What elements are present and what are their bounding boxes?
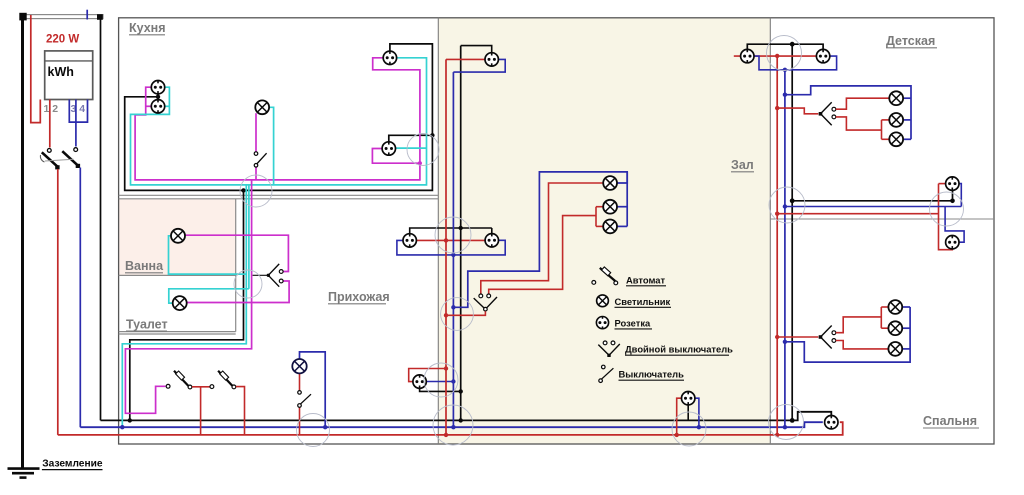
- wire magenta K2 left pin stub: [146, 105, 152, 107]
- wire red zal switch feed: [446, 311, 485, 315]
- node B (right bus square): [97, 14, 103, 20]
- wire red zal lamp2-3 circuit: [596, 206, 603, 208]
- double switch childrens: [819, 102, 836, 125]
- wire cyan K2 right pin stub: [165, 105, 170, 107]
- wire blue bottom bus: [80, 422, 823, 427]
- node blue hall lamp: [323, 425, 327, 429]
- wire blue hall lamp return: [300, 352, 326, 427]
- breaker Б2: [210, 371, 236, 389]
- wire red bedroom switch feed: [777, 336, 818, 338]
- svg-text:Спальня: Спальня: [923, 414, 977, 428]
- svg-text:Двойной выключатель: Двойной выключатель: [625, 344, 733, 355]
- svg-text:1 2: 1 2: [44, 103, 59, 115]
- svg-text:Детская: Детская: [886, 34, 935, 48]
- socket K2: [151, 100, 164, 113]
- wire red hall lamp drop: [299, 373, 301, 390]
- bath right wall: [235, 199, 237, 332]
- wire blue P1 Z2: [397, 240, 454, 255]
- wire blue right riser: [784, 70, 786, 427]
- junction box childrens top: [767, 36, 802, 71]
- wire cyan riser A: [122, 185, 246, 427]
- svg-text:Прихожая: Прихожая: [328, 290, 390, 304]
- wire blue childrens lamps neutral: [785, 86, 911, 139]
- junction box kitchen riser: [240, 175, 272, 207]
- junction box right wall middle: [769, 187, 805, 223]
- floor plan outer border: [119, 18, 994, 444]
- lamp zal 2: [603, 200, 617, 214]
- node black riser tap kitchen: [241, 188, 245, 192]
- socket hallway P2: [413, 375, 426, 388]
- lamp childrens 3: [889, 132, 903, 146]
- wire blue Z1: [453, 59, 505, 72]
- legend lamp symbol: [597, 295, 609, 307]
- svg-text:Зал: Зал: [731, 158, 754, 172]
- wire black P2: [420, 388, 462, 391]
- meter kWh box: [45, 51, 93, 100]
- socket M1: [946, 177, 959, 190]
- zал living room cream background: [438, 18, 770, 444]
- breaker Б1: [166, 371, 192, 389]
- node dots on risers: [444, 238, 448, 242]
- svg-text:3 4: 3 4: [71, 103, 86, 115]
- wire red bedroom lamp 3: [836, 341, 889, 349]
- kitchen bottom double wall: [119, 194, 439, 196]
- wire magenta bath lamp feed: [185, 235, 288, 271]
- junction box hall socket bottom: [424, 363, 458, 397]
- svg-text:Розетка: Розетка: [615, 317, 652, 328]
- wire cyan K4 right pin stub: [395, 147, 426, 149]
- wire black Z3: [687, 405, 689, 420]
- wire blue riser zal: [452, 72, 454, 427]
- lamp toilet: [173, 296, 187, 310]
- wire black riser: [130, 190, 244, 420]
- ground wire: [21, 17, 24, 469]
- node magenta K4: [418, 161, 422, 165]
- wire red childrens lamp1: [836, 98, 890, 109]
- socket hallway P1: [403, 234, 416, 247]
- wire red breaker1 out: [192, 386, 210, 388]
- wire cyan toilet lamp return: [169, 289, 249, 303]
- svg-text:Выключатель: Выключатель: [619, 369, 685, 380]
- socket D2: [816, 49, 829, 62]
- lamp bath: [171, 229, 185, 243]
- legend switch symbol: [599, 365, 614, 382]
- socket M2: [946, 236, 959, 249]
- wire red Z3: [677, 398, 682, 435]
- wire black bottom bus: [101, 412, 832, 421]
- toilet bottom double wall: [119, 331, 236, 333]
- wire red phase drop from bus: [31, 15, 41, 123]
- svg-text:kWh: kWh: [48, 65, 74, 79]
- socket D1: [741, 49, 754, 62]
- wire magenta riser: [125, 180, 251, 413]
- wire red top sockets link: [734, 55, 817, 57]
- bath pink background: [119, 199, 236, 276]
- node supply bus: [23, 15, 103, 19]
- bath bottom wall: [119, 274, 236, 276]
- lamp hallway: [292, 359, 306, 373]
- wire red right riser: [776, 56, 778, 435]
- double switch bedroom: [819, 326, 836, 349]
- wire red from switch down to red bottom bus: [57, 169, 59, 435]
- junction box zal switch: [441, 298, 474, 331]
- wire black from bus node B down to bottom black bus: [100, 17, 102, 420]
- node black riser to bus: [128, 418, 132, 422]
- lamp zal 1: [603, 176, 617, 190]
- lamp kitchen: [255, 100, 269, 114]
- wire blue from switch down to blue bottom bus: [79, 168, 81, 428]
- svg-text:220 W: 220 W: [46, 34, 79, 46]
- switch hallway lamp: [298, 391, 311, 408]
- svg-text:Заземление: Заземление: [42, 459, 103, 470]
- wire red riser zal: [445, 59, 447, 435]
- wire magenta socket K4: [372, 149, 420, 164]
- junction box zal bottom socket: [672, 412, 706, 446]
- main double-pole switch: [40, 148, 80, 170]
- socket Z1: [485, 53, 498, 66]
- legend double switch symbol: [598, 341, 620, 357]
- wire red zal lamp1 circuit: [481, 183, 603, 294]
- lamp bedroom 1: [888, 300, 902, 314]
- socket K3: [383, 51, 396, 64]
- node cyan to blue bus: [120, 425, 124, 429]
- wire red bottom bus: [58, 422, 843, 435]
- junction box zal sockets row: [435, 217, 471, 253]
- legend breaker symbol: [592, 267, 618, 285]
- lamp bedroom 2: [888, 321, 902, 335]
- wire red childrens lamps 2-3: [836, 117, 882, 130]
- socket K1: [151, 81, 164, 94]
- wire cyan riser B: [248, 185, 250, 289]
- wall kitchen/hall vs living room: [437, 18, 439, 444]
- junction box bath switch: [234, 270, 262, 298]
- wire red to sockets M1 M2: [777, 213, 938, 215]
- node dots right risers: [775, 54, 779, 58]
- socket Z2: [485, 234, 498, 247]
- wire cyan kitchen lamp return: [269, 107, 274, 185]
- wire magenta kitchen left sockets: [135, 58, 420, 180]
- svg-text:Светильник: Светильник: [615, 296, 671, 307]
- double switch bath/toilet: [253, 264, 284, 287]
- wire cyan kitchen sockets loop: [131, 58, 427, 185]
- wire blue terminal 4 down to switch: [75, 100, 77, 147]
- wire red childrens switch feed: [777, 108, 818, 114]
- wire blue Z3: [695, 398, 699, 427]
- legend socket symbol: [596, 316, 608, 329]
- lamp bedroom 3: [888, 342, 902, 356]
- junction box bedroom bottom: [769, 405, 804, 440]
- svg-text:Туалет: Туалет: [126, 318, 168, 332]
- wire blue terminal 3 U loop: [69, 100, 87, 123]
- switch kitchen lamp: [254, 152, 266, 167]
- ground: [8, 469, 40, 478]
- node black K4 tap: [430, 133, 434, 137]
- wire black right riser: [791, 44, 793, 420]
- wire red bedroom lamps 1-2: [836, 317, 882, 333]
- svg-text:Автомат: Автомат: [626, 274, 666, 285]
- junction box hall lamp: [297, 414, 330, 447]
- wire magenta toilet lamp feed: [187, 281, 289, 303]
- wire red terminal 2 down to switch: [49, 100, 51, 148]
- junction box zal bottom left: [433, 405, 473, 445]
- node kitchen sockets link: [156, 95, 160, 99]
- wire red Z1: [446, 58, 485, 60]
- lamp childrens 2: [889, 113, 903, 127]
- socket Z3: [682, 392, 695, 405]
- wire blue P2: [426, 381, 453, 383]
- wire red P1 to Z2: [416, 239, 485, 241]
- wire blue top sockets link: [754, 56, 836, 70]
- wire blue stub at bus: [86, 10, 88, 20]
- wire blue bedroom lamps neutral: [902, 306, 910, 308]
- wire blue zal lamps neutral: [453, 172, 627, 307]
- wire black kitchen loop: [125, 44, 433, 191]
- junction box kitchen right: [407, 134, 439, 166]
- lamp zal 3: [603, 220, 617, 234]
- wire magenta kitchen lamp drop to switch: [255, 113, 257, 151]
- wire blue to sockets M1 M2: [785, 206, 961, 208]
- junction box middle sockets: [930, 192, 964, 226]
- wire black link between sockets K1 K2: [157, 94, 159, 101]
- wire cyan bath lamp return: [169, 236, 247, 274]
- node A (left bus square): [19, 13, 26, 21]
- socket K4: [382, 142, 395, 155]
- wall childrens vs bedroom: [770, 218, 994, 220]
- wire black tap socket K4: [389, 135, 433, 142]
- wire black to socket M1: [792, 190, 952, 200]
- svg-text:Ванна: Ванна: [125, 259, 164, 273]
- wire black top sockets link: [747, 44, 823, 49]
- wire black riser zal: [460, 46, 462, 421]
- socket bedroom bottom: [825, 416, 838, 429]
- wall living room vs childrens/bedroom: [769, 18, 771, 444]
- lamp childrens 1: [889, 91, 903, 105]
- wire black Z2: [491, 228, 493, 234]
- wire red P2: [409, 369, 446, 382]
- wire blue Z2: [453, 240, 505, 255]
- double switch zal: [474, 294, 497, 311]
- wire black P1: [410, 228, 492, 234]
- wire red breaker2 out: [236, 387, 245, 435]
- svg-text:Кухня: Кухня: [129, 21, 166, 35]
- wire black Z1: [461, 46, 492, 53]
